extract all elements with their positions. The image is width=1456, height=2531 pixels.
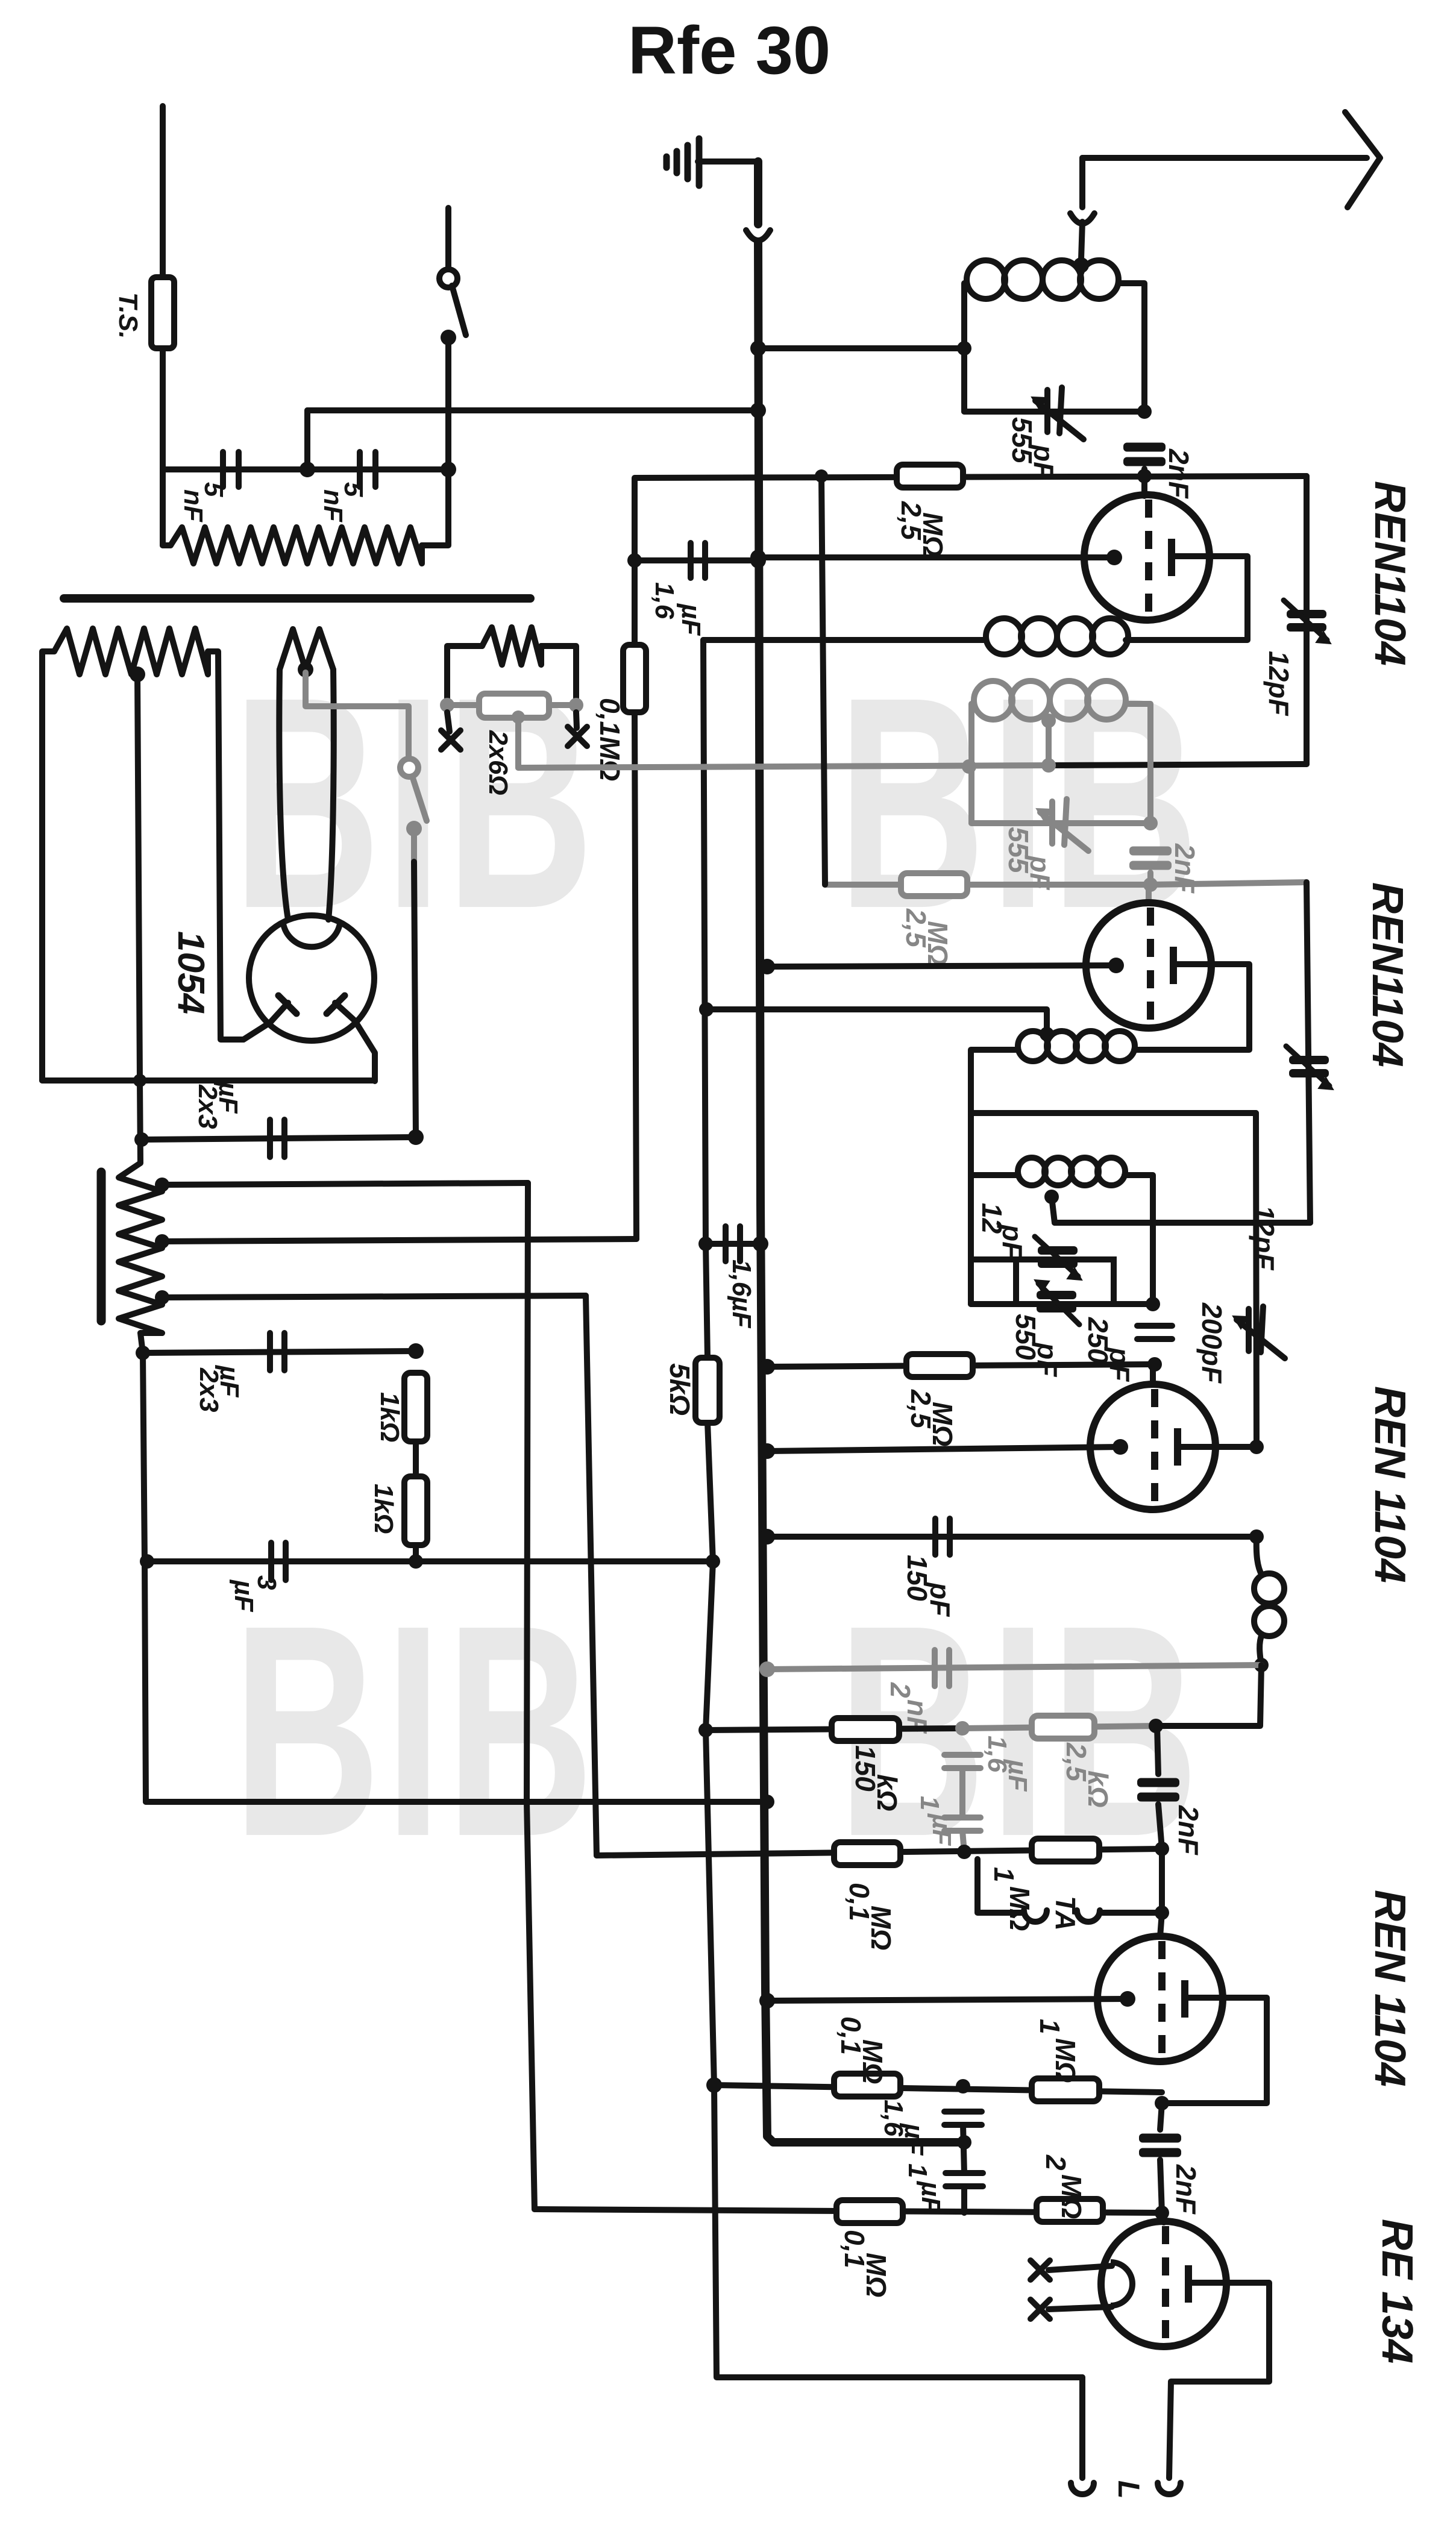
label 1M af1 <box>988 1867 1035 1931</box>
junction 150pF row <box>1249 1529 1264 1544</box>
junction box rail <box>1146 1297 1160 1311</box>
capacitor trimmer 12pF stage2 <box>1286 1046 1333 1090</box>
wire hum stub a <box>447 646 482 698</box>
plug main bus <box>746 230 770 240</box>
label 2x3uF upper <box>193 1080 243 1129</box>
label TA <box>1050 1896 1081 1931</box>
capacitor 1uF af <box>946 2173 983 2186</box>
label 1054 <box>170 931 212 1014</box>
wire grid node to tube1 <box>1141 476 1147 496</box>
wire 1.6uF mid row <box>706 1241 758 1247</box>
label 0.1M af1 <box>844 1883 897 1950</box>
svg-text:1: 1 <box>915 1796 944 1810</box>
label REN1104 no4 <box>1366 1890 1414 2087</box>
resistor 5k <box>695 1358 720 1423</box>
label 12pF stage3 <box>976 1203 1028 1259</box>
resistor 0.1M bias <box>623 645 646 712</box>
cathode column <box>703 640 708 1358</box>
junction L2b tap <box>1040 1027 1054 1041</box>
wire det grid to tube <box>1150 1364 1156 1384</box>
wire grey caps link <box>959 1768 965 1817</box>
resistor 1k lower <box>404 1476 427 1545</box>
junction cap row mid <box>300 462 315 477</box>
label 1uF grey <box>915 1796 956 1846</box>
junction bus grid4 <box>759 1993 775 2009</box>
capacitor 250pF <box>1137 1326 1172 1339</box>
terminal X re134 a <box>1031 2260 1050 2280</box>
tube REN1104 no1 <box>1084 495 1210 620</box>
wire af coupling row <box>767 1665 1261 1669</box>
wire hum wiper down <box>515 717 521 768</box>
wire 0.1M col <box>632 560 638 645</box>
label 0.1M bias <box>594 698 626 781</box>
label 5nF right <box>318 482 368 522</box>
wire X stub right <box>576 712 577 728</box>
switch lever <box>452 286 466 335</box>
wire 2nF2 down grey <box>1147 873 1153 885</box>
wire HT tap down <box>137 674 140 1163</box>
capacitor variable 555pF stage1 <box>1032 387 1084 439</box>
label 2.5M stage2 <box>900 908 953 965</box>
label 1.6uF af <box>879 2100 929 2156</box>
junction grid node2 grey <box>1143 877 1158 892</box>
label 1.6uF top <box>650 582 706 636</box>
capacitor 1uF grey <box>944 1817 981 1831</box>
anode 1054 right <box>335 1003 375 1081</box>
junction cap row1 left <box>134 1132 149 1147</box>
junction tank2 out grey <box>1143 816 1158 830</box>
wire hum stub right <box>549 702 576 708</box>
label 1.6uF grey <box>982 1736 1032 1792</box>
label 2.5M stage3 <box>905 1389 958 1446</box>
resistor 2.5M stage2 <box>901 873 967 896</box>
junction bus tank1 <box>750 340 766 356</box>
capacitor variable 200pF <box>1233 1306 1285 1358</box>
junction antenna tap <box>1073 257 1089 273</box>
label 2nF stage1 <box>1163 448 1194 500</box>
wire tank1 to bus <box>758 345 964 351</box>
wire cap row <box>163 466 448 472</box>
junction anode4 node <box>1155 2096 1169 2110</box>
wire 150pF row <box>767 1534 1257 1540</box>
svg-text:1,6µF: 1,6µF <box>727 1259 756 1329</box>
wire caps af down <box>961 2186 967 2213</box>
svg-text:2nF: 2nF <box>1163 448 1194 500</box>
junction detector grid <box>1147 1357 1162 1372</box>
ground symbol <box>667 139 699 186</box>
junction bus det grid <box>759 1359 775 1375</box>
wire 3uF row <box>147 1558 713 1564</box>
anode wire RE134 <box>1169 2283 1269 2478</box>
svg-text:RE 134: RE 134 <box>1373 2219 1421 2363</box>
wire 2nF af2 up <box>1157 1726 1158 1774</box>
tube REN1104 no3 <box>1090 1384 1216 1510</box>
svg-text:pF: pF <box>1028 444 1059 480</box>
wire L2 right grey <box>1126 704 1150 823</box>
junction cap row right <box>441 462 456 477</box>
bus top <box>754 162 762 224</box>
wire af2 row <box>714 2085 1162 2092</box>
junction bus af row <box>759 1661 775 1677</box>
junction tap col <box>133 1074 146 1087</box>
capacitor 2nF stage1 <box>1123 443 1166 466</box>
svg-text:µF: µF <box>676 603 706 636</box>
bus main <box>758 242 964 2142</box>
wire tap3 col down <box>586 1296 597 1855</box>
junction bus grid2 <box>759 959 775 974</box>
junction grid node1 <box>1137 469 1152 483</box>
fuse T.S. lead <box>160 106 166 277</box>
switch lead top <box>445 208 451 270</box>
anode wire tube4 <box>1162 1998 1267 2103</box>
wire 150k row <box>706 1728 962 1730</box>
junction pot tap1 <box>155 1178 169 1192</box>
wire hum stub b <box>541 646 576 698</box>
wire 2.5k row grey <box>962 1726 1156 1728</box>
wire 2nF out down <box>1160 2160 1162 2213</box>
svg-text:5kΩ: 5kΩ <box>664 1363 695 1416</box>
junction 3uF row mid <box>409 1554 423 1569</box>
label 1uF af <box>903 2163 946 2213</box>
terminal speaker left <box>1071 2483 1094 2494</box>
grid dot tube3 <box>1112 1439 1128 1455</box>
junction L2 tap grey <box>1041 714 1056 728</box>
capacitor trimmer 12pF stage1 <box>1284 600 1331 644</box>
svg-text:MΩ: MΩ <box>1056 2174 1087 2219</box>
antenna arrow <box>1345 112 1380 207</box>
wire heater tap grey <box>306 673 409 758</box>
switch HT grey <box>400 759 418 777</box>
grid dot tube2 <box>1108 958 1124 973</box>
mains switch <box>439 269 457 287</box>
label 2nF af2 <box>1173 1805 1204 1856</box>
capacitor 2x3uF upper <box>270 1120 284 1157</box>
capacitor 1.6uF grey <box>944 1755 981 1768</box>
wire antenna to coil <box>1081 222 1082 259</box>
wire HT switch down <box>411 829 417 862</box>
wire det grid line <box>767 1364 1155 1367</box>
svg-text:µF: µF <box>215 1364 244 1397</box>
junction cap row2 left <box>136 1346 150 1360</box>
junction output grid node <box>1155 2206 1169 2220</box>
junction filament tap <box>298 662 313 677</box>
junction hum wiper <box>512 710 525 724</box>
label 1k lower <box>369 1484 398 1534</box>
tube RE134 <box>1101 2221 1226 2347</box>
resistor 1k upper <box>404 1373 427 1441</box>
label 2x3uF lower <box>194 1364 244 1412</box>
wire antenna down <box>1079 158 1085 207</box>
capacitor 1.6uF top <box>691 543 705 578</box>
label 12pF stage1 <box>1263 651 1294 717</box>
anode wire tube3 <box>1178 1444 1257 1450</box>
wire 1k to 3uF row <box>413 1545 419 1561</box>
grid wire tube1 <box>758 554 1114 560</box>
resistor 0.1M af2 <box>834 2074 900 2097</box>
terminal X re134 b <box>1031 2300 1050 2319</box>
wire switch to cap row <box>445 337 451 469</box>
svg-text:µF: µF <box>1003 1758 1032 1792</box>
resistor 150k <box>832 1718 899 1741</box>
svg-text:BIB: BIB <box>233 1562 598 1899</box>
junction HT centre tap <box>130 666 145 682</box>
wire L1 left <box>964 283 967 412</box>
wire caps af link <box>963 2125 964 2173</box>
plug antenna <box>1070 213 1094 224</box>
svg-text:1kΩ: 1kΩ <box>375 1392 404 1442</box>
label 550pF <box>1010 1314 1063 1378</box>
resistor hum shunt <box>482 627 541 665</box>
wire fuse to cap row <box>160 348 166 469</box>
wire L3 tap down <box>1052 1197 1055 1223</box>
junction TA node <box>1155 1905 1169 1920</box>
wire L2 left grey <box>971 704 974 823</box>
label 555pF stage1 <box>1006 417 1059 480</box>
svg-text:µF: µF <box>899 2122 929 2156</box>
svg-text:kΩ: kΩ <box>871 1774 903 1811</box>
svg-text:µF: µF <box>927 1813 956 1846</box>
svg-text:REN 1104: REN 1104 <box>1366 1890 1414 2087</box>
svg-text:pF: pF <box>924 1581 956 1617</box>
label REN1104 no3 <box>1366 1386 1414 1583</box>
capacitor 5nF left <box>223 452 239 487</box>
grid wire tube3 <box>767 1447 1120 1451</box>
svg-text:pF: pF <box>1032 1341 1063 1378</box>
capacitor 2nF output <box>1139 2134 1181 2157</box>
junction pot tap2 <box>155 1234 169 1249</box>
junction af2 grey node <box>956 2079 970 2093</box>
svg-text:1,6: 1,6 <box>650 582 679 619</box>
wire af grid to tube <box>1160 1913 1162 1937</box>
heater lead RE134 b <box>1049 2307 1112 2309</box>
label 2nF output <box>1170 2164 1202 2215</box>
capacitor 2x3uF lower <box>270 1333 284 1370</box>
label 2.5M stage1 <box>896 501 949 557</box>
resistor 1M af2 <box>1032 2078 1099 2101</box>
terminal TA right <box>1077 1910 1100 1922</box>
svg-text:REN1104: REN1104 <box>1366 481 1414 666</box>
wire tap2 line <box>162 1239 636 1241</box>
resistor 0.1M output <box>836 2200 903 2223</box>
potentiometer bar <box>97 1172 106 1321</box>
junction bus grid3 <box>759 1443 775 1459</box>
svg-text:2: 2 <box>1040 2154 1072 2171</box>
potentiometer divider <box>119 1163 162 1333</box>
wire box left link <box>971 1256 1016 1262</box>
decor <box>233 634 1203 1899</box>
svg-text:nF: nF <box>318 489 348 522</box>
wire L2 tap down grey <box>1046 721 1052 765</box>
wire TA link <box>1159 1849 1165 1913</box>
svg-text:nF: nF <box>178 489 208 522</box>
rectifier 1054 <box>249 915 374 1041</box>
wire tap3 col foot <box>594 1852 600 1858</box>
fuse label T.S. <box>113 292 143 339</box>
terminal X hum right <box>568 727 587 746</box>
junction 1.6uF row left <box>627 553 642 568</box>
transformer filament winding <box>280 629 333 670</box>
wire tap1 col down <box>527 1183 528 1802</box>
junction hum right <box>569 698 583 712</box>
wire grid leak line2 grey <box>825 882 1150 888</box>
wire tap1 line <box>162 1183 528 1185</box>
junction cap row1 right <box>408 1129 424 1145</box>
wire feed corner <box>304 410 310 469</box>
anode 1054 right plate <box>327 996 345 1014</box>
coil choke L3b <box>1254 1537 1284 1665</box>
wire HT right end <box>208 651 243 1040</box>
transformer HT winding <box>54 629 208 674</box>
svg-text:TA: TA <box>1050 1896 1081 1931</box>
anode wire tube2 <box>1134 964 1249 1050</box>
anode 1054 left plate <box>278 996 297 1014</box>
capacitor 1.6uF mid <box>726 1226 740 1261</box>
junction af2 row left <box>706 2077 722 2093</box>
coil antenna L1 <box>967 260 1119 299</box>
capacitor trimmer 12pF stage3 <box>1035 1237 1082 1280</box>
switch HT lever grey <box>412 776 427 821</box>
wire stage3 B line <box>971 1110 1256 1116</box>
svg-text:MΩ: MΩ <box>917 512 949 557</box>
svg-text:1: 1 <box>1034 2019 1065 2034</box>
capacitor 2nF af2 <box>1137 1778 1179 1802</box>
junction 2.5k out <box>1149 1719 1163 1733</box>
switch contact <box>441 330 456 345</box>
label 150pF <box>902 1555 956 1617</box>
coil L3 grid <box>1018 1158 1125 1185</box>
label 1k upper <box>375 1392 404 1442</box>
capacitor 1.6uF af <box>944 2112 982 2125</box>
svg-text:Rfe 30: Rfe 30 <box>628 13 830 88</box>
junction cathode col L2b <box>699 1002 714 1017</box>
wire af bias row <box>597 1849 1162 1855</box>
junction cap row2 right <box>408 1343 424 1359</box>
grid dot tube1 <box>1106 550 1122 565</box>
label L <box>1112 2480 1146 2499</box>
svg-text:MΩ: MΩ <box>922 921 953 965</box>
wire 12pF col stage1 <box>1304 476 1310 764</box>
label 12pF stage2 <box>1249 1205 1280 1271</box>
label REN1104 no1 <box>1366 481 1414 666</box>
resistor 2.5M stage1 <box>897 465 963 488</box>
junction bus corner row <box>957 2135 971 2150</box>
label 2nF stage2 <box>1169 843 1200 894</box>
resistor 1M af1 <box>1032 1839 1099 1861</box>
svg-text:pF: pF <box>997 1223 1028 1259</box>
junction choke bottom <box>1254 1658 1269 1672</box>
svg-text:1054: 1054 <box>170 931 212 1014</box>
svg-text:REN1104: REN1104 <box>1363 882 1411 1067</box>
svg-text:MΩ: MΩ <box>1004 1886 1035 1931</box>
junction af grid node <box>1155 1842 1169 1856</box>
junction anode3 col <box>1249 1440 1264 1454</box>
resistor 2.5M stage3 <box>906 1354 973 1377</box>
junction bus 150pF <box>759 1529 775 1545</box>
terminal speaker right <box>1158 2483 1181 2494</box>
label 0.1M output <box>839 2230 892 2297</box>
svg-text:kΩ: kΩ <box>1082 1770 1114 1808</box>
svg-text:L: L <box>1112 2480 1146 2499</box>
capacitor 3uF <box>271 1543 286 1580</box>
svg-text:MΩ: MΩ <box>861 2253 892 2297</box>
junction cathode bus L2 grey <box>962 759 976 774</box>
cathode column b <box>706 1422 1082 2377</box>
wire filament right lead <box>328 670 334 920</box>
svg-text:2nF: 2nF <box>1173 1805 1204 1856</box>
svg-text:2: 2 <box>885 1682 916 1698</box>
wire cathode bus grey <box>518 765 1049 768</box>
wire 2x3uF row2 <box>143 1351 416 1353</box>
svg-text:2x6Ω: 2x6Ω <box>483 730 513 795</box>
junction bus feed <box>750 403 766 418</box>
wire HT left to anode <box>42 1077 375 1084</box>
junction tank1 bus <box>957 341 971 356</box>
capacitor variable 550pF <box>1035 1280 1079 1325</box>
capacitor 5nF right <box>360 452 375 487</box>
wire TA right <box>1100 1910 1162 1916</box>
junction 1.6uF mid left <box>698 1237 713 1251</box>
svg-text:1: 1 <box>903 2163 932 2178</box>
wire L1b left <box>703 637 986 643</box>
separator line <box>64 594 530 603</box>
wire tank1 bottom <box>964 409 1144 415</box>
wire cathode bus black <box>1049 764 1307 765</box>
wire dropper right <box>422 469 448 545</box>
wire L3 right <box>1125 1175 1153 1303</box>
grid wire tube4 <box>767 1999 1128 2001</box>
svg-text:T.S.: T.S. <box>113 292 143 339</box>
capacitor 150pF <box>935 1519 950 1555</box>
wire L2b tap up <box>706 1009 1047 1034</box>
svg-text:REN 1104: REN 1104 <box>1366 1386 1414 1583</box>
junction bus 1.6uF mid <box>753 1236 768 1252</box>
resistor mains dropper <box>171 527 422 563</box>
junction bus grid1 <box>750 550 766 565</box>
tube REN1104 no2 <box>1086 903 1211 1028</box>
svg-text:1: 1 <box>988 1867 1020 1883</box>
terminal TA left <box>1024 1910 1047 1922</box>
anode wire tube1 <box>1126 556 1247 640</box>
junction hum left <box>440 698 454 712</box>
wire 0.1M col down <box>635 712 636 1239</box>
resistor 2.5k grey <box>1032 1716 1094 1739</box>
anode 1054 left <box>243 1003 288 1040</box>
label 2nF af grey <box>885 1682 933 1734</box>
wire tap1 col foot <box>527 1802 535 2209</box>
svg-text:2nF: 2nF <box>1170 2164 1202 2215</box>
svg-text:12pF: 12pF <box>1263 651 1294 717</box>
wire filament left lead <box>279 670 288 920</box>
wire output grid row <box>535 2209 1162 2213</box>
tube REN1104 no4 <box>1097 1936 1223 2062</box>
junction grid line tap <box>815 469 828 483</box>
svg-text:MΩ: MΩ <box>865 1905 897 1950</box>
wire ground lead <box>698 158 758 165</box>
wire between 1k <box>413 1441 419 1476</box>
resistor 2M <box>1037 2199 1103 2222</box>
label 2x6 ohm <box>483 730 513 795</box>
fuse T.S. <box>151 277 174 348</box>
label RE134 <box>1373 2219 1421 2363</box>
svg-text:MΩ: MΩ <box>927 1402 958 1446</box>
wire speaker left <box>1079 2377 1085 2478</box>
junction tank1 out <box>1137 404 1152 419</box>
label 3uF <box>229 1575 281 1612</box>
wire L2b left <box>971 1050 1017 1175</box>
capacitor 2nF stage2 <box>1129 847 1172 870</box>
resistor 2x6 ohm <box>479 694 549 718</box>
svg-text:1kΩ: 1kΩ <box>369 1484 398 1534</box>
